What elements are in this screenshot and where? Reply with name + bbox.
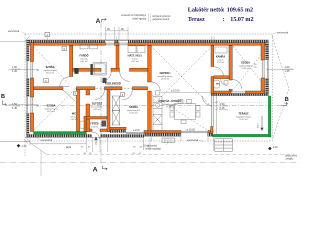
svg-text:-0.30: -0.30 — [272, 147, 278, 149]
svg-text:hőszivattyú: hőszivattyú — [146, 145, 158, 148]
svg-text:A: A — [93, 167, 98, 174]
svg-text:A: A — [96, 18, 101, 25]
svg-text:tapétázott gmf: tapétázott gmf — [127, 109, 140, 112]
svg-text:SZOBA: SZOBA — [241, 62, 250, 65]
svg-text:KÖZLEKEDŐ: KÖZLEKEDŐ — [105, 83, 121, 86]
svg-text:KONYHA - ÉTKEZŐ: KONYHA - ÉTKEZŐ — [158, 100, 181, 103]
svg-text:TERASZ: TERASZ — [239, 113, 249, 116]
svg-text:WC: WC — [216, 84, 220, 86]
svg-text:4,95 m2: 4,95 m2 — [93, 109, 101, 111]
svg-text:a 2.10: a 2.10 — [133, 129, 141, 132]
svg-text:17,20 m2: 17,20 m2 — [166, 107, 175, 109]
svg-text:FŰTÉS: FŰTÉS — [90, 123, 99, 126]
svg-text:ÖLTÖZŐ: ÖLTÖZŐ — [92, 103, 102, 106]
svg-text:10,40 m2: 10,40 m2 — [129, 113, 138, 115]
svg-text:B: B — [285, 97, 289, 103]
svg-text:SZOBA: SZOBA — [129, 106, 138, 109]
svg-text:B: B — [1, 94, 5, 100]
svg-text:FÜRDŐ: FÜRDŐ — [80, 55, 89, 58]
svg-text:a 10.00: a 10.00 — [171, 89, 180, 92]
svg-text:kerámia: kerámia — [70, 116, 78, 118]
svg-text:HÁZT. HELY.: HÁZT. HELY. — [128, 55, 143, 58]
svg-text:1.50: 1.50 — [285, 66, 290, 69]
svg-text:járda menti: járda menti — [285, 154, 298, 157]
svg-text:15,07 m2: 15,07 m2 — [239, 119, 248, 121]
svg-text:ereszvonal: ereszvonal — [8, 30, 20, 33]
svg-text:90: 90 — [37, 105, 39, 107]
svg-text:fagyálló burkolat: fagyálló burkolat — [236, 115, 251, 118]
svg-text:laminált parketta: laminált parketta — [158, 75, 174, 78]
svg-text:belső egység: belső egység — [132, 18, 146, 20]
svg-text:12,81 m2: 12,81 m2 — [241, 68, 250, 70]
svg-text:ereszvonal: ereszvonal — [277, 31, 289, 34]
svg-text:a 10.30: a 10.30 — [187, 129, 196, 132]
svg-text:járda: járda — [65, 146, 72, 149]
svg-text:7,27 m2: 7,27 m2 — [109, 89, 117, 91]
svg-text:1.50: 1.50 — [12, 66, 17, 69]
svg-text:1.45: 1.45 — [285, 70, 290, 73]
svg-text:tapétázott gmf: tapétázott gmf — [45, 107, 58, 110]
svg-text:8x17: 8x17 — [258, 122, 260, 128]
svg-text:2.15: 2.15 — [220, 107, 225, 110]
svg-text:1,50 m2: 1,50 m2 — [70, 119, 78, 121]
svg-text:WC: WC — [72, 113, 76, 116]
svg-text:kerámia: kerámia — [80, 58, 88, 60]
svg-text:90: 90 — [254, 67, 256, 69]
svg-text:90: 90 — [254, 64, 256, 66]
svg-text:25,50 m2: 25,50 m2 — [161, 79, 170, 81]
svg-text:-0.30: -0.30 — [21, 146, 27, 148]
svg-text:gépészeti csonk: gépészeti csonk — [153, 18, 170, 21]
svg-text:polcos: polcos — [218, 59, 224, 61]
svg-text:90: 90 — [37, 70, 39, 72]
svg-text:kültéri egysége: kültéri egysége — [146, 148, 162, 151]
svg-text:szegély: szegély — [286, 158, 295, 160]
svg-text:NAPPALI: NAPPALI — [160, 72, 171, 75]
svg-text:15,81 m2: 15,81 m2 — [46, 73, 55, 75]
svg-text:laminált parketta: laminált parketta — [106, 86, 122, 89]
svg-text:2.50: 2.50 — [220, 103, 225, 106]
svg-text:SZOBA: SZOBA — [47, 105, 56, 108]
svg-text:1,92 m2: 1,92 m2 — [217, 62, 225, 64]
svg-text:1.45: 1.45 — [12, 70, 17, 73]
svg-text:tapétázott gmf: tapétázott gmf — [239, 64, 252, 67]
svg-text:ereszvonal: ereszvonal — [187, 139, 199, 142]
svg-text:11,25 m2: 11,25 m2 — [47, 111, 56, 113]
svg-text:tapétázott gmf: tapétázott gmf — [44, 69, 57, 72]
svg-text:8,02 m2: 8,02 m2 — [80, 61, 88, 63]
svg-text:3,00 m2: 3,00 m2 — [91, 126, 99, 128]
svg-text:kamra: kamra — [132, 58, 138, 60]
svg-text:Lakótér nettó:109.65 m2: Lakótér nettó:109.65 m2 — [188, 8, 253, 14]
svg-text:KAMRA: KAMRA — [216, 56, 225, 59]
svg-text:központi porszívó: központi porszívó — [153, 15, 172, 18]
svg-text:lam. parketta: lam. parketta — [91, 105, 103, 108]
svg-text:laminált parketta: laminált parketta — [163, 103, 179, 106]
svg-text:SZOBA: SZOBA — [46, 66, 55, 69]
svg-text:ereszvonal: ereszvonal — [41, 139, 53, 142]
svg-text:tervezett vill. hőszivattyú: tervezett vill. hőszivattyú — [121, 14, 147, 17]
svg-text:1.45: 1.45 — [12, 107, 17, 110]
svg-text:6,07 m2: 6,07 m2 — [131, 61, 139, 63]
